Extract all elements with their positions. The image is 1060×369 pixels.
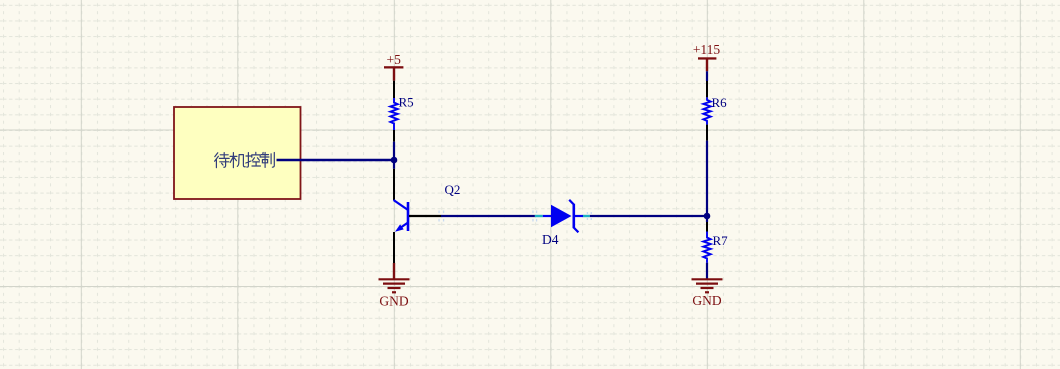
svg-text:R7: R7 bbox=[713, 233, 729, 248]
svg-text:+5: +5 bbox=[387, 52, 402, 67]
svg-text:Q2: Q2 bbox=[445, 182, 461, 197]
junction node B bbox=[704, 213, 711, 220]
junction node A bbox=[391, 157, 398, 164]
power +5 bbox=[384, 52, 403, 81]
wire from block to node A bbox=[277, 159, 395, 162]
svg-text:R5: R5 bbox=[399, 95, 414, 110]
wire R7 to ground bbox=[706, 263, 708, 279]
svg-text:GND: GND bbox=[379, 294, 408, 309]
net highlight segment (right of D4) bbox=[583, 215, 590, 217]
svg-text:R6: R6 bbox=[712, 95, 728, 110]
resistor R6 bbox=[703, 81, 727, 141]
diode D4 (zener) bbox=[542, 200, 583, 247]
selection marks near wire vertices bbox=[438, 211, 591, 222]
wire Q2 base to D4 bbox=[441, 215, 535, 217]
power +115 bbox=[693, 42, 721, 71]
svg-text:GND: GND bbox=[692, 293, 721, 308]
wire R5 to node bbox=[393, 142, 395, 169]
resistor R5 bbox=[390, 81, 413, 142]
net highlight segment (left of D4) bbox=[535, 215, 543, 217]
ground GND (left) bbox=[379, 263, 410, 309]
resistor R7 bbox=[703, 222, 728, 263]
svg-text:D4: D4 bbox=[542, 232, 559, 247]
transistor Q2 bbox=[394, 169, 461, 263]
wire +115 to R6 bbox=[706, 71, 708, 81]
wire D4 to node B bbox=[590, 215, 707, 217]
wire R6 to node B bbox=[706, 141, 708, 222]
block 待机控制 (sheet symbol) bbox=[174, 107, 301, 199]
svg-text:+115: +115 bbox=[693, 42, 721, 57]
ground GND (right) bbox=[692, 279, 723, 308]
